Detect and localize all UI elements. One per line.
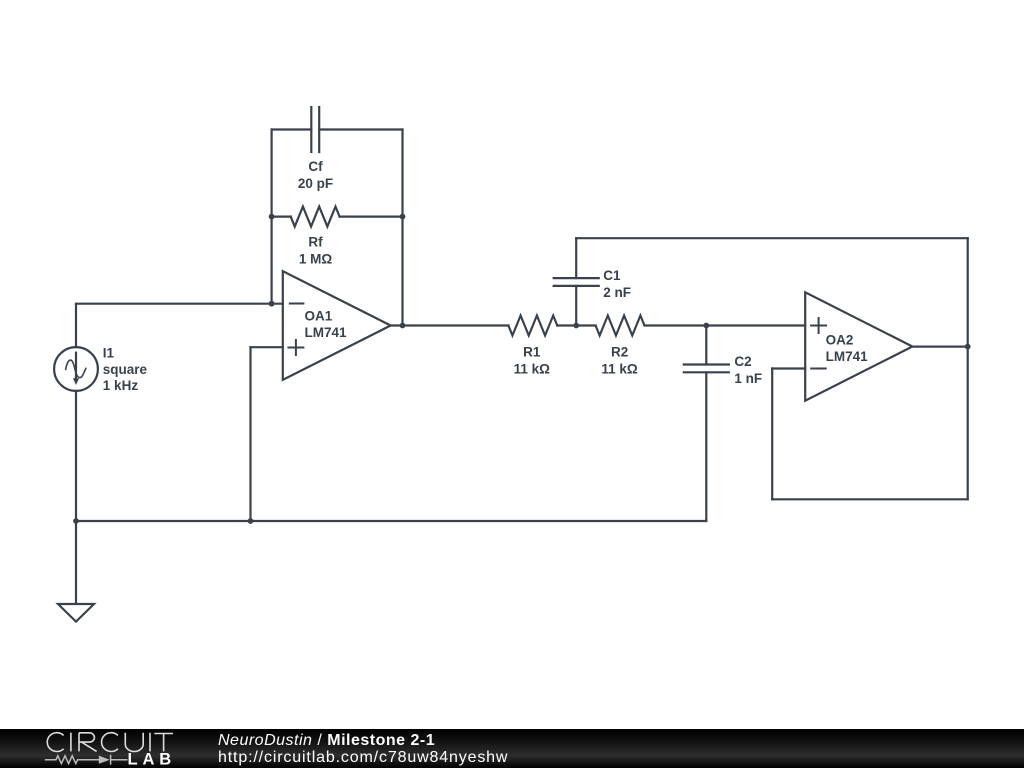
capacitor Cf [311,107,319,152]
svg-text:R2: R2 [611,345,628,360]
svg-text:LM741: LM741 [826,349,869,364]
svg-text:NeuroDustin / Milestone 2-1: NeuroDustin / Milestone 2-1 [218,732,435,749]
resistor Rf [291,207,340,227]
wire: R2 to OA2 plus input [645,324,806,326]
svg-text:R1: R1 [523,345,541,360]
current source I1 [54,347,98,391]
wire: Rf right lead [340,216,403,218]
wire: right feedback loop vertical [401,130,403,326]
node: inverting input junction [269,301,275,307]
op-amp OA2 minus sign [811,368,826,370]
wire: non-inverting input horizontal [251,346,283,348]
node: OA1 output junction [400,323,406,329]
svg-text:I1: I1 [103,346,115,361]
svg-text:LAB: LAB [128,751,177,768]
wire: Rf left lead [272,216,291,218]
op-amp OA1 triangle [283,271,391,380]
label R1 value [514,345,551,377]
svg-text:1 kHz: 1 kHz [103,378,139,393]
label Rf value [299,235,333,267]
wire: I1 to inverting input [76,303,283,305]
svg-text:20 pF: 20 pF [298,176,333,191]
footer bar [0,729,1024,768]
wire: OA2 feedback left vertical [771,369,773,500]
wire: top loop horizontal right of Cf [319,128,402,130]
op-amp OA2 triangle [805,292,912,400]
wire: top loop horizontal left of Cf [272,128,312,130]
capacitor C1 [554,238,599,325]
svg-text:Rf: Rf [308,235,323,250]
wire: I1 top lead [75,304,77,347]
svg-text:OA1: OA1 [305,309,333,324]
label C2 value [734,354,762,386]
node: ground rail middle junction [248,518,254,524]
svg-text:Cf: Cf [308,159,323,174]
wire: bottom rail [76,520,706,522]
ground [58,604,94,622]
wire: right vertical feedback [967,238,969,499]
svg-text:LM741: LM741 [305,325,348,340]
label Cf value [298,159,333,191]
wire: R1 to R2 [557,324,595,326]
label C1 value [603,268,631,300]
node: OA2 output junction [965,344,971,350]
label OA1 [305,309,348,340]
op-amp OA1 minus sign [290,303,304,305]
wire: non-inverting input vertical [249,347,251,521]
node: C1 junction [573,323,579,329]
svg-text:2 nF: 2 nF [603,285,631,300]
svg-text:square: square [103,362,148,377]
wire: OA1 output to R1 [391,324,509,326]
wire: OA2 output [912,346,967,348]
wire: I1 bottom lead to ground rail [75,391,77,604]
logo CIRCUIT lettering [47,733,173,752]
node: Rf left junction [269,214,275,220]
wire: top feedback horizontal [576,237,968,239]
wire: left feedback loop vertical [271,130,273,304]
label OA2 [826,333,869,364]
op-amp OA1 plus sign [288,340,303,355]
label I1 value [103,346,148,394]
resistor R1 [508,316,557,336]
logo diode triangle [99,756,110,764]
svg-text:1 MΩ: 1 MΩ [299,252,333,267]
svg-text:11 kΩ: 11 kΩ [514,361,551,376]
node: C2 junction [703,323,709,329]
node: Rf right junction [400,214,406,220]
wire: OA2 minus input lead [772,367,805,369]
op-amp OA2 plus sign [811,318,826,333]
svg-text:OA2: OA2 [826,333,854,348]
logo resistor-diode squiggle [45,755,128,765]
node: ground rail left junction [73,518,79,524]
resistor R2 [596,316,645,336]
svg-text:11 kΩ: 11 kΩ [601,361,638,376]
wire: OA2 feedback bottom horizontal [772,498,968,500]
svg-text:C1: C1 [603,268,621,283]
svg-text:1 nF: 1 nF [734,371,762,386]
capacitor C2 [684,326,729,522]
svg-text:C2: C2 [734,354,751,369]
label R2 value [601,345,638,377]
svg-text:http://circuitlab.com/c78uw84n: http://circuitlab.com/c78uw84nyeshw [218,749,508,766]
